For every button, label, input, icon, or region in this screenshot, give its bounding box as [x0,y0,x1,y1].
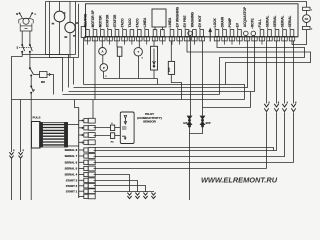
main electronic board connector outline [86,4,299,37]
svg-text:PULS: PULS [33,116,41,120]
racetrack drop to EVP line [250,92,252,108]
svg-text:1: 1 [85,28,86,30]
svg-text:7: 7 [137,28,138,30]
start 3 staircase down [94,181,138,193]
resistor R below bar [117,41,122,79]
svg-text:EVL: EVL [183,122,188,125]
svg-text:6: 6 [290,28,291,30]
bus line y95 from fan to lock nest [63,94,220,96]
serial 6 line to arrow 4 [94,162,294,164]
svg-text:5: 5 [282,28,283,30]
svg-text:SERIAL 8: SERIAL 8 [65,148,78,152]
board pin TACO at x=139.3 [135,18,142,41]
strip pin 1 [79,140,96,145]
board pin LOCK at x=217.0 [213,17,220,40]
joining wire of component bottoms [104,78,158,80]
round pin between EV PRE pins [188,31,192,35]
board pin EV HOT at x=201.8 [198,15,205,41]
wire from contact C to bottom edge [30,93,32,200]
arrow mark on LOCK pin slot [209,29,212,42]
motor wire to strip pin lower [68,145,79,147]
valve return wire to bottom edge [189,134,191,201]
board pin NEUTRO at x=87.5 [84,13,91,44]
strip pin SERIAL 5 [65,166,96,171]
board pin blank at x=162.4 [160,30,165,45]
svg-text:START 2: START 2 [66,184,78,188]
svg-text:SERIAL 5: SERIAL 5 [65,167,78,171]
strip pin 3 [79,125,96,130]
svg-text:LINEA: LINEA [168,17,172,27]
svg-text:A: A [101,50,103,54]
svg-text:8: 8 [144,28,145,30]
board pin blank at x=155.0 [152,30,157,41]
bus vertical fan 4 [73,58,75,85]
lower control strip rail [78,108,80,199]
wire from pin MOTOR SP down to long bus [94,41,96,100]
board pin STATOR at x=109.6 [106,14,113,45]
svg-text:SERIAL 6: SERIAL 6 [65,160,78,164]
strip pin START 1 [66,189,95,194]
svg-text:WWW.ELREMONT.RU: WWW.ELREMONT.RU [201,175,278,184]
pilot conductivity sensor box [120,112,134,144]
fuse component at board edge [81,27,86,61]
svg-text:4: 4 [107,27,108,30]
bus wire B: EV washing pin right nest [187,41,311,85]
board pin STATOR at x=117.0 [113,14,120,41]
motor pump circle P with terminal 2 [100,55,108,78]
svg-text:SERIAL: SERIAL [273,15,277,27]
svg-text:SENSOR: SENSOR [143,120,157,124]
svg-text:7: 7 [230,28,231,30]
board pin LINEA at x=172.0 [168,17,175,45]
bus vertical from interlock output [51,75,54,95]
board pin EV WASHING at x=179.6 [176,6,183,44]
svg-text:ROTE: ROTE [251,18,255,27]
serial wire 1 with connector arrow [266,41,268,104]
board pin SERIAL at x=269.5 [266,15,273,40]
strip pin SERIAL 6 [65,160,96,165]
pulsator motor PULS [32,116,68,148]
svg-text:STATOR: STATOR [106,14,110,27]
wire plug to mains switch, left pole [21,31,23,45]
connector pin bar [86,36,299,38]
serial 4 staircase down [94,175,130,193]
wire pin3 to sensor coupler 6 [94,127,111,129]
svg-text:PUMP: PUMP [228,17,232,27]
mains plug with filter, terminals N and L [16,13,36,31]
bus line y87.5 from fan to DRAIN pin drop [74,41,248,88]
sensor caption text [137,112,162,124]
strip pin 2 [79,133,96,138]
svg-text:SERIAL: SERIAL [266,15,270,27]
strip pin 4 feed from bus [92,100,94,119]
svg-text:EV PRE: EV PRE [183,15,187,27]
svg-text:6: 6 [122,28,123,30]
staircase connector arrowheads [127,193,131,196]
svg-text:4: 4 [275,27,276,30]
feed wire from connector NEUTRO to switch (upper horizontal) [22,2,75,55]
board pin LINEA at x=146.7 [143,17,150,45]
wire switch right pole down to door interlock [29,52,31,68]
board pin SERIAL at x=277.0 [273,15,280,40]
start 2 staircase down [94,186,146,193]
wire PA terminal 1 to top rail [306,1,308,7]
strip pin START 3 [66,178,95,183]
board pin MOTOR SP at x=95.0 [91,9,98,41]
svg-text:6: 6 [222,28,223,30]
svg-text:NTC: NTC [169,67,171,72]
door interlock switch with MR coil [29,68,50,84]
svg-text:5: 5 [215,28,216,30]
board pin WASHING at x=194.4 [191,11,198,44]
double-pole mains switch [17,44,33,52]
left rail continues to bottom edge [11,158,13,200]
svg-text:SERIAL: SERIAL [288,15,292,27]
suppressor circle terminals 11-12 [52,2,66,55]
strip pin blank [79,194,96,199]
svg-text:FULL: FULL [258,19,262,27]
valve bottoms joining wire [190,127,203,133]
board pin TACO at x=131.9 [128,18,135,45]
serial wire 4 with connector arrow [293,41,295,104]
svg-text:DRAIN: DRAIN [221,16,225,27]
strip pin START 2 [66,183,95,188]
svg-text:1: 1 [252,28,253,30]
svg-text:STATOR: STATOR [113,14,117,27]
board pin ACQUASTOP at x=247.0 [243,6,250,41]
serial wire 2 with connector arrow [276,41,278,104]
bus line y91.5 from fan to PUMP pin drop [69,41,255,92]
feed wire from connector LINEA to switch (lower horizontal) [30,4,79,58]
EV hot wire down to EVP supply line [202,41,204,108]
svg-text:MOTOR SP: MOTOR SP [91,9,95,27]
board pin SERIAL at x=284.5 [281,15,288,40]
wire PA terminal 2 down to serial pin rail [292,30,307,45]
svg-text:NEUTRO: NEUTRO [84,13,88,27]
svg-text:MR: MR [41,81,45,84]
strip pin SERIAL 8 [65,148,96,153]
svg-text:SERIAL 4: SERIAL 4 [65,173,78,177]
wire switch left pole down and to left rail [12,52,23,152]
top wire along board to suppressor PA [46,1,307,3]
heater box with internal arrow [151,41,158,79]
board pin TACO at x=124.5 [121,18,128,45]
board pin FULL at x=262.0 [258,19,265,45]
board pin DRAIN at x=224.5 [221,16,228,44]
svg-text:3: 3 [267,28,268,30]
svg-text:2: 2 [260,28,261,30]
extra return line above serial 8 [95,147,274,150]
strip pin 4 [79,118,96,123]
svg-text:LINEA: LINEA [143,17,147,27]
svg-text:1: 1 [170,28,171,30]
rail feed from long bus [75,100,79,108]
svg-text:START 3: START 3 [66,178,78,182]
serial 7 line to arrow 3 [94,155,285,158]
wire plug to mains switch, right pole [29,31,31,45]
svg-text:EV HOT: EV HOT [198,15,202,27]
wire pin2 to sensor coupler NC [94,135,111,137]
suppressor PA with terminals 1 and 2 [303,7,314,30]
relay box on board above pins [152,9,166,27]
strip pin SERIAL 7 [65,154,96,159]
svg-text:EVP: EVP [206,122,211,125]
board pin EV at x=239.5 [236,22,243,45]
contact C below interlock [31,76,36,93]
svg-text:2: 2 [177,28,178,30]
svg-text:3: 3 [100,28,101,30]
NTC sensor [168,41,181,100]
svg-text:4: 4 [199,27,200,30]
svg-text:ACQUASTOP: ACQUASTOP [243,6,247,27]
suppressor circle PA terminals 13-14 [64,2,78,58]
svg-text:WASHING: WASHING [191,11,195,27]
svg-text:TACO: TACO [121,18,125,27]
svg-text:EV WASHING: EV WASHING [176,6,180,27]
inline coupler NC [111,133,121,144]
svg-text:P: P [103,66,105,70]
thermostat circle T [134,41,144,79]
feed vertical to switch pole 1 [45,2,47,55]
svg-text:NC: NC [111,141,115,143]
svg-text:N: N [16,13,18,16]
bus vertical fan 5 (left end of line y84) [83,61,85,85]
serial 8 line to arrow 2 [94,150,277,151]
solenoid valve EVL [183,116,191,127]
svg-text:LOCK: LOCK [213,17,217,27]
svg-text:TACO: TACO [135,18,139,27]
motor armature circle A [99,41,107,55]
strip pin SERIAL 4 [65,172,96,177]
left rail 2 with connector arrow 2 [20,100,22,153]
bus vertical fan 3 [46,54,76,56]
svg-text:5: 5 [115,28,116,30]
bus vertical fan 2 [50,57,79,59]
svg-text:8: 8 [237,28,238,30]
svg-text:MOTOR: MOTOR [98,15,102,28]
start 1 staircase down [94,191,154,194]
board pin SERIAL at x=292.0 [288,15,295,40]
svg-text:2: 2 [93,28,94,30]
svg-text:SERIAL 7: SERIAL 7 [65,154,78,158]
svg-text:TACO: TACO [128,18,132,27]
EVL feed wire from round pin straight down [190,35,192,116]
inline coupler 6 [111,123,121,131]
serial wire 3 with connector arrow [284,41,286,104]
feed vertical to switch pole 2 [49,2,51,58]
board pin PUMP at x=232.0 [228,17,235,44]
serial 5 line to arrow 1 [94,168,267,170]
connector arrow 1 on left rail [13,149,14,151]
solenoid valve EVP [200,108,211,128]
svg-text:T: T [137,50,139,54]
svg-text:PA: PA [305,17,309,21]
motor wire to strip pin upper [68,124,79,126]
board pin EV PRE at x=187.0 [183,15,190,40]
svg-text:SERIAL: SERIAL [281,15,285,27]
EVP supply line y108 [203,107,251,109]
svg-text:C: C [33,88,35,92]
board pin MOTOR at x=102.3 [98,15,105,41]
bus wire A: LOCK pin right nest [217,41,305,95]
svg-text:START 1: START 1 [66,189,78,193]
svg-text:3: 3 [185,28,186,30]
long bus line y99.5 across [12,99,245,101]
board pin ROTE at x=254.5 [251,18,258,41]
bus line y84 from fan to drop [84,85,245,100]
